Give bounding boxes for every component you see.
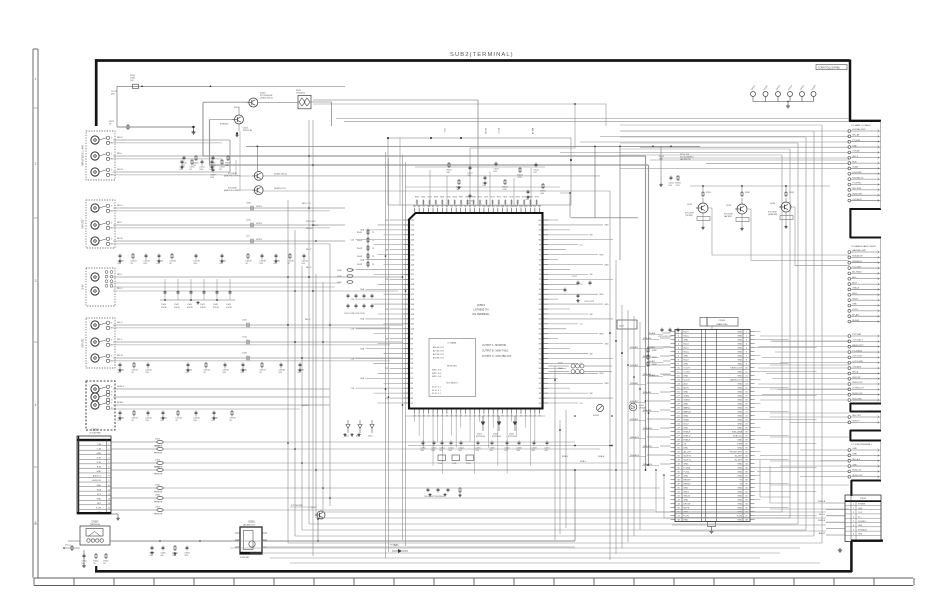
svg-text:GND: GND (684, 392, 689, 394)
svg-text:SUB-GND: SUB-GND (852, 398, 862, 400)
svg-text:8: 8 (853, 534, 854, 536)
svg-text:P-SCL: P-SCL (684, 472, 691, 474)
svg-text:SUB-AV-IN: SUB-AV-IN (852, 255, 863, 258)
svg-text:S1 0 1 0 1: S1 0 1 0 1 (432, 390, 441, 392)
wire feeders to edge stubs lower (757, 336, 849, 477)
svg-text:4.7K: 4.7K (675, 185, 680, 187)
resistor R532 (741, 186, 751, 197)
wire monitor out runs (110, 389, 330, 409)
net label tags upper left of CN501 (648, 332, 671, 377)
svg-text:6: 6 (853, 525, 854, 527)
svg-text:IN2-Y: IN2-Y (684, 332, 690, 334)
svg-text:IC501: IC501 (477, 303, 485, 307)
svg-text:IN3-V: IN3-V (117, 137, 123, 139)
svg-text:IN2-V: IN2-V (684, 344, 690, 346)
wire bus mid verticals (555, 191, 640, 560)
svg-text:IN2-L: IN2-L (117, 222, 123, 224)
wire input3 signal runs (110, 140, 236, 175)
svg-text:R563: R563 (434, 197, 438, 199)
svg-text:GND: GND (858, 534, 863, 536)
svg-text:GND: GND (737, 356, 742, 358)
resistor R533 (785, 186, 795, 197)
svg-text:Q531: Q531 (687, 204, 693, 206)
svg-text:FERRITE: FERRITE (154, 502, 163, 504)
capacitor C533 pair (668, 175, 681, 187)
svg-text:Y-OUT: Y-OUT (684, 368, 691, 370)
svg-text:GND: GND (737, 392, 742, 394)
svg-text:R540: R540 (357, 232, 363, 234)
svg-text:SEL-AV: SEL-AV (852, 134, 860, 137)
svg-text:GND: GND (852, 464, 857, 466)
svg-text:S-IN: S-IN (82, 284, 85, 289)
net stubs SUB group (848, 382, 881, 401)
svg-text:REG: REG (600, 373, 604, 375)
connector JK505 monitor out (86, 381, 115, 430)
wire input2 signal runs (110, 208, 345, 244)
resistor R561 (93, 553, 99, 565)
svg-text:SP-ALL: SP-ALL (852, 313, 860, 316)
svg-text:REG: REG (600, 294, 604, 296)
svg-text:R575: R575 (510, 197, 514, 199)
svg-text:3: 3 (35, 279, 37, 283)
connector JK503 INPUT3 FULL-AV (82, 131, 116, 180)
svg-text:SDA2: SDA2 (684, 419, 690, 422)
svg-text:(EMI-FOLLOWER): (EMI-FOLLOWER) (224, 176, 241, 178)
svg-text:FERRITE: FERRITE (154, 453, 163, 455)
svg-text:GND: GND (852, 448, 857, 450)
wire comb IC left pins (351, 220, 404, 403)
svg-text:Y-SW: Y-SW (737, 444, 742, 446)
svg-text:SUB1-OUT: SUB1-OUT (852, 382, 863, 384)
svg-text:C-M: C-M (351, 388, 355, 390)
svg-text:IC503 SEL: IC503 SEL (240, 557, 250, 559)
svg-text:1SS133x2: 1SS133x2 (296, 92, 306, 94)
svg-text:MON-V: MON-V (302, 405, 310, 407)
svg-text:R580: R580 (652, 350, 657, 352)
series capacitors on input2 wires (246, 203, 263, 244)
svg-text:V-OUT: V-OUT (684, 380, 691, 382)
bias boxes under transistors (697, 212, 793, 230)
svg-text:IC NAME: IC NAME (448, 342, 457, 345)
svg-text:IN1-L: IN1-L (117, 339, 123, 341)
svg-text:SUB2-CN: SUB2-CN (852, 470, 862, 472)
svg-text:IN1-C: IN1-C (684, 352, 690, 354)
svg-text:S-DET1: S-DET1 (684, 460, 692, 462)
svg-text:SW: SW (590, 314, 593, 316)
svg-text:CN502: CN502 (860, 498, 867, 500)
svg-text:AV0 IN OUT: AV0 IN OUT (433, 346, 444, 349)
svg-text:RGB-B: RGB-B (684, 440, 691, 442)
svg-text:SW-V: SW-V (684, 492, 690, 494)
wire CN504 runs (111, 442, 665, 510)
svg-text:CN504: CN504 (91, 429, 99, 432)
svg-text:GND: GND (737, 428, 742, 430)
connector CN504 table (77, 429, 111, 515)
svg-text:AV-CNT: AV-CNT (684, 451, 692, 454)
net labels mid-bottom (390, 456, 605, 547)
svg-text:470/16: 470/16 (161, 307, 167, 309)
svg-text:SW1 L H X: SW1 L H X (432, 373, 442, 375)
svg-text:C572 C573: C572 C573 (584, 301, 595, 303)
svg-text:GND: GND (737, 332, 742, 334)
svg-text:P-ON: P-ON (737, 516, 743, 518)
svg-text:(EMI-FOLLOWER): (EMI-FOLLOWER) (224, 190, 241, 192)
capacitors C536 row input2 (117, 253, 308, 265)
svg-text:GND: GND (684, 404, 689, 406)
svg-text:GND: GND (684, 364, 689, 366)
connector TP service pins (751, 84, 818, 101)
svg-text:(AV-SW): (AV-SW) (724, 215, 732, 218)
svg-text:INPUT3(FULL-AV): INPUT3(FULL-AV) (82, 145, 85, 166)
svg-text:DET-IN: DET-IN (684, 504, 691, 506)
svg-text:C-M: C-M (351, 269, 355, 271)
transistor Q503 emitter follower (224, 172, 287, 181)
net label TU-5V (111, 91, 118, 96)
svg-text:MTZJ9.1B: MTZJ9.1B (508, 436, 517, 438)
svg-text:(SUB-SW): (SUB-SW) (768, 214, 778, 216)
svg-text:MON-L: MON-L (117, 402, 125, 404)
capacitor row below IC (420, 441, 550, 452)
svg-text:2.2K: 2.2K (502, 189, 507, 191)
svg-text:MTZJ5.1B: MTZJ5.1B (243, 130, 253, 132)
svg-text:GND: GND (737, 364, 742, 366)
svg-text:SW: SW (590, 235, 593, 237)
capacitor cluster right of IC (564, 276, 596, 303)
svg-text:10K: 10K (225, 165, 229, 167)
wire G1 feeder runs (336, 119, 849, 169)
svg-text:IN1-V: IN1-V (305, 319, 311, 321)
svg-text:SUB2-SW: SUB2-SW (852, 193, 861, 195)
svg-text:GND: GND (605, 264, 610, 266)
ground (659, 183, 663, 187)
svg-text:DIGI-GND: DIGI-GND (852, 172, 862, 174)
svg-text:CN501: CN501 (719, 320, 727, 322)
svg-text:IN2-C: IN2-C (684, 336, 690, 338)
schematic border outline (95, 59, 881, 572)
svg-text:RGB-R: RGB-R (684, 432, 691, 434)
svg-text:IC503: IC503 (248, 521, 255, 524)
svg-text:GND: GND (737, 424, 742, 426)
svg-text:SW-L: SW-L (852, 293, 858, 295)
svg-text:C-OUT: C-OUT (684, 372, 691, 374)
svg-text:GND: GND (737, 372, 742, 374)
svg-text:GND: GND (737, 396, 742, 398)
svg-text:C-M: C-M (351, 329, 355, 331)
IC501 internal table (429, 339, 476, 397)
svg-text:MUTE: MUTE (684, 508, 691, 510)
svg-text:SW: SW (590, 353, 593, 355)
wire collector bus (650, 160, 849, 187)
junction dots bus (287, 276, 649, 520)
wire bus right-down connectors (656, 460, 826, 531)
connector JK502 INPUT2 rear (82, 200, 116, 248)
svg-text:SEL-OUT: SEL-OUT (852, 415, 862, 417)
svg-text:470/16: 470/16 (200, 307, 206, 309)
wire table right long runs to edge (770, 341, 849, 509)
svg-text:R574: R574 (503, 197, 507, 199)
svg-text:OUTPUT C : NON-TBK OUT: OUTPUT C : NON-TBK OUT (482, 356, 512, 358)
svg-text:SCAN: SCAN (852, 166, 858, 169)
svg-text:GND: GND (858, 508, 863, 510)
svg-text:OUT-AV-D: OUT-AV-D (852, 198, 862, 201)
svg-text:AU-L: AU-L (684, 383, 690, 386)
svg-text:(AV-SELECT): (AV-SELECT) (243, 524, 256, 527)
svg-text:C575 C576 C577: C575 C576 C577 (658, 336, 673, 338)
IC IC501 main chip (409, 213, 543, 409)
svg-text:R542: R542 (357, 248, 363, 250)
svg-text:(9V): (9V) (111, 94, 115, 96)
svg-text:C591 C592 C593 R594: C591 C592 C593 R594 (424, 496, 444, 498)
svg-text:IN2-V: IN2-V (117, 205, 123, 207)
svg-text:GND: GND (852, 304, 857, 306)
svg-text:IN2-V 75: IN2-V 75 (302, 203, 311, 205)
svg-text:GND: GND (684, 500, 689, 502)
svg-text:GND: GND (684, 476, 689, 478)
svg-text:SUB-R: SUB-R (598, 456, 605, 458)
capacitor tap cluster svideo-left (160, 279, 235, 309)
svg-text:C547 C548 C549 C550: C547 C548 C549 C550 (344, 313, 366, 315)
wire bias verticals (560, 146, 661, 260)
ground (111, 514, 120, 520)
svg-text:GND: GND (684, 520, 689, 522)
svg-text:TV-SUB: TV-SUB (852, 140, 860, 142)
svg-text:TV-CONT: TV-CONT (852, 266, 862, 268)
svg-text:3: 3 (853, 512, 854, 514)
ground (786, 101, 790, 108)
net stubs TO MAIN 1 (848, 124, 881, 202)
transistor Q581 (311, 507, 325, 519)
wire bus left verticals (288, 120, 330, 556)
svg-text:SUB-DATA: SUB-DATA (732, 431, 743, 434)
parts bottom middle (149, 545, 190, 557)
svg-text:OUT1-AV-T: OUT1-AV-T (852, 339, 863, 342)
capacitors C560 row monitor (117, 410, 236, 422)
svg-text:GND: GND (737, 348, 742, 350)
connector CN501 table (671, 318, 755, 530)
svg-text:GND: GND (737, 476, 742, 478)
IC501 output note (482, 344, 512, 358)
svg-text:SUB-AV-R: SUB-AV-R (852, 260, 862, 263)
svg-text:PR-V/24V: PR-V/24V (306, 221, 316, 223)
svg-text:C-M: C-M (351, 299, 355, 301)
svg-text:S1-DET: S1-DET (735, 460, 743, 462)
svg-text:GND: GND (605, 343, 610, 345)
svg-text:GND: GND (737, 360, 742, 362)
svg-text:R541: R541 (357, 240, 363, 242)
svg-text:GND: GND (684, 464, 689, 466)
svg-text:SW: SW (590, 393, 593, 395)
wire bottom long runs (110, 470, 575, 547)
svg-text:(MAIN-PNB): (MAIN-PNB) (716, 323, 727, 326)
transistor Q523 (247, 93, 273, 108)
wires to CN502 (818, 500, 845, 535)
title SUB2(TERMINAL) (450, 52, 514, 58)
svg-text:SUB-V: SUB-V (306, 228, 313, 230)
svg-text:GND: GND (858, 525, 863, 527)
svg-text:R570: R570 (478, 197, 482, 199)
svg-text:MTZJ9.1B: MTZJ9.1B (492, 436, 501, 438)
svg-text:GND: GND (737, 496, 742, 498)
resistor R531 (702, 186, 712, 197)
svg-text:(SUB2-TV/LD): (SUB2-TV/LD) (274, 174, 287, 176)
svg-text:OUTPUT A : MONITOR: OUTPUT A : MONITOR (482, 344, 506, 347)
svg-text:GND: GND (737, 352, 742, 354)
svg-text:S-DET2: S-DET2 (684, 456, 692, 458)
svg-text:TU-V: TU-V (443, 128, 445, 133)
svg-text:GND: GND (737, 344, 742, 346)
svg-text:C-M: C-M (351, 358, 355, 360)
svg-text:1: 1 (853, 504, 854, 506)
capacitors top mid cluster (181, 155, 231, 179)
svg-text:SUB2-CN2: SUB2-CN2 (852, 475, 863, 477)
svg-text:R569: R569 (472, 197, 476, 199)
svg-text:DIGITAL-5V: DIGITAL-5V (852, 176, 864, 179)
riser labels above IC (443, 128, 534, 135)
label box CONN TO LCD-PNB (816, 65, 847, 70)
svg-text:GND: GND (737, 400, 742, 402)
svg-text:GND: GND (737, 500, 742, 502)
wire emitter outputs (240, 131, 610, 191)
svg-text:P-TUN-CNB: P-TUN-CNB (291, 505, 303, 507)
svg-text:AUDIO-R: AUDIO-R (92, 479, 101, 482)
svg-text:(AV-SW-5V): (AV-SW-5V) (680, 158, 691, 161)
svg-text:P-ON: P-ON (684, 516, 690, 518)
wire bridge output (311, 100, 606, 206)
IC IC503 AV select (235, 521, 267, 560)
svg-text:2: 2 (35, 162, 37, 166)
text block SEL note (659, 154, 694, 161)
svg-text:IN2-C: IN2-C (117, 288, 123, 290)
svg-text:VOL-2: VOL-2 (65, 545, 72, 547)
transistor Q504 emitter follower (224, 186, 286, 195)
svg-text:R544: R544 (357, 264, 363, 266)
svg-text:MON-V: MON-V (117, 386, 125, 388)
svg-text:SW: SW (590, 274, 593, 276)
svg-text:R579: R579 (535, 197, 539, 199)
svg-text:AV3 IN OUT: AV3 IN OUT (433, 357, 444, 360)
svg-text:DIGITAL-GND: DIGITAL-GND (852, 128, 866, 131)
ground (82, 550, 86, 568)
resistor chain R540 left of IC (357, 228, 375, 268)
svg-text:10/25V: 10/25V (256, 239, 263, 241)
svg-text:GND: GND (684, 356, 689, 358)
svg-text:5: 5 (853, 521, 854, 523)
svg-text:(TO A-PNB): (TO A-PNB) (89, 432, 100, 435)
svg-text:4.7K: 4.7K (517, 177, 522, 179)
wire input1 runs (110, 325, 403, 361)
zener diodes D501-D503 (476, 416, 517, 438)
connector JK504 S-VIDEO (82, 268, 116, 306)
svg-text:MODE SEL: MODE SEL (447, 366, 458, 368)
svg-text:IN3-R: IN3-R (117, 169, 123, 171)
svg-text:SW-5V: SW-5V (684, 496, 691, 498)
svg-text:RGB-G: RGB-G (684, 436, 691, 438)
svg-text:L555: L555 (155, 484, 161, 486)
svg-text:TV-SUB-A: TV-SUB-A (852, 349, 862, 352)
diode D571 (392, 545, 408, 553)
svg-text:X502: X502 (452, 463, 456, 465)
IC501 pins top (413, 206, 542, 212)
net labels input wires (117, 137, 319, 407)
svg-text:GND: GND (737, 440, 742, 442)
IC501 pins bottom (413, 410, 541, 418)
svg-text:S2-DET: S2-DET (735, 456, 743, 458)
svg-text:SUB-TV: SUB-TV (852, 421, 860, 423)
net stubs OUT group (848, 333, 881, 380)
svg-text:OUT1-GND: OUT1-GND (852, 361, 863, 363)
svg-text:GND: GND (737, 384, 742, 386)
svg-text:TO SUB(TERMINAL): TO SUB(TERMINAL) (851, 443, 872, 446)
ground (710, 530, 714, 534)
svg-text:KTA1266: KTA1266 (220, 123, 229, 126)
svg-text:L554: L554 (155, 466, 161, 468)
svg-text:SEL-2: SEL-2 (852, 156, 859, 158)
svg-text:GND: GND (737, 376, 742, 378)
wire drops below IC (400, 414, 612, 474)
net label P-TUN-CNB (290, 505, 313, 507)
svg-text:P-SDA: P-SDA (684, 467, 691, 470)
svg-text:FERRITE: FERRITE (154, 492, 163, 494)
svg-text:CONN TO(LCD-PNB): CONN TO(LCD-PNB) (818, 68, 840, 70)
svg-text:VIDEO-OUT: VIDEO-OUT (730, 368, 742, 370)
svg-text:TO SUB (LEFT): TO SUB (LEFT) (851, 411, 867, 413)
svg-text:IN1-V: IN1-V (684, 360, 690, 362)
svg-text:OUT-AVS: OUT-AVS (852, 365, 861, 368)
svg-text:SW-OUT: SW-OUT (852, 377, 861, 379)
wire bus verticals near IC (386, 152, 406, 558)
svg-text:R562: R562 (428, 197, 432, 199)
svg-text:10K: 10K (172, 555, 176, 557)
svg-text:4: 4 (35, 403, 37, 407)
ground (192, 126, 196, 134)
svg-text:AV-R: AV-R (852, 281, 857, 284)
svg-text:7: 7 (853, 529, 854, 531)
zener D524 (235, 124, 252, 137)
svg-text:SUB-L: SUB-L (580, 461, 587, 463)
svg-text:TO MAIN BOARD CN602: TO MAIN BOARD CN602 (851, 245, 877, 248)
svg-text:SEL-A-5: SEL-A-5 (852, 458, 861, 461)
svg-text:SEL-SUB: SEL-SUB (852, 188, 861, 190)
svg-text:DOWN-OUT: DOWN-OUT (852, 388, 864, 390)
connector JK501 INPUT1 (82, 318, 116, 368)
capacitors C547 svideo cluster (344, 294, 374, 315)
parts above IC (446, 162, 546, 205)
resistor array above IC (413, 197, 541, 206)
svg-text:FERRITE: FERRITE (154, 474, 163, 476)
svg-text:MTZJ9.1B: MTZJ9.1B (476, 436, 485, 438)
svg-text:OUTPUT B : MAIN TV/LD: OUTPUT B : MAIN TV/LD (482, 350, 509, 353)
wire comb IC right pins (548, 220, 613, 405)
svg-text:Q533: Q533 (770, 203, 776, 205)
svg-text:SUB-L: SUB-L (684, 396, 691, 398)
svg-text:R567: R567 (459, 197, 463, 199)
wire SW line y146 (246, 146, 700, 172)
svg-text:R572: R572 (491, 197, 495, 199)
svg-text:R573: R573 (497, 197, 501, 199)
svg-text:IN1-Y: IN1-Y (684, 348, 690, 350)
wire gray bus pair vertical (203, 102, 649, 470)
svg-text:5: 5 (35, 521, 37, 525)
svg-text:R571: R571 (484, 197, 488, 199)
svg-text:FRONT-DET: FRONT-DET (730, 452, 743, 454)
svg-text:GND: GND (684, 448, 689, 450)
svg-text:SEL-A: SEL-A (852, 371, 859, 374)
svg-text:GND: GND (737, 336, 742, 338)
svg-text:(SUB2-TV/LD): (SUB2-TV/LD) (260, 97, 273, 99)
svg-text:L551: L551 (155, 438, 161, 440)
svg-text:C-M: C-M (351, 240, 355, 242)
svg-text:GND: GND (684, 428, 689, 430)
